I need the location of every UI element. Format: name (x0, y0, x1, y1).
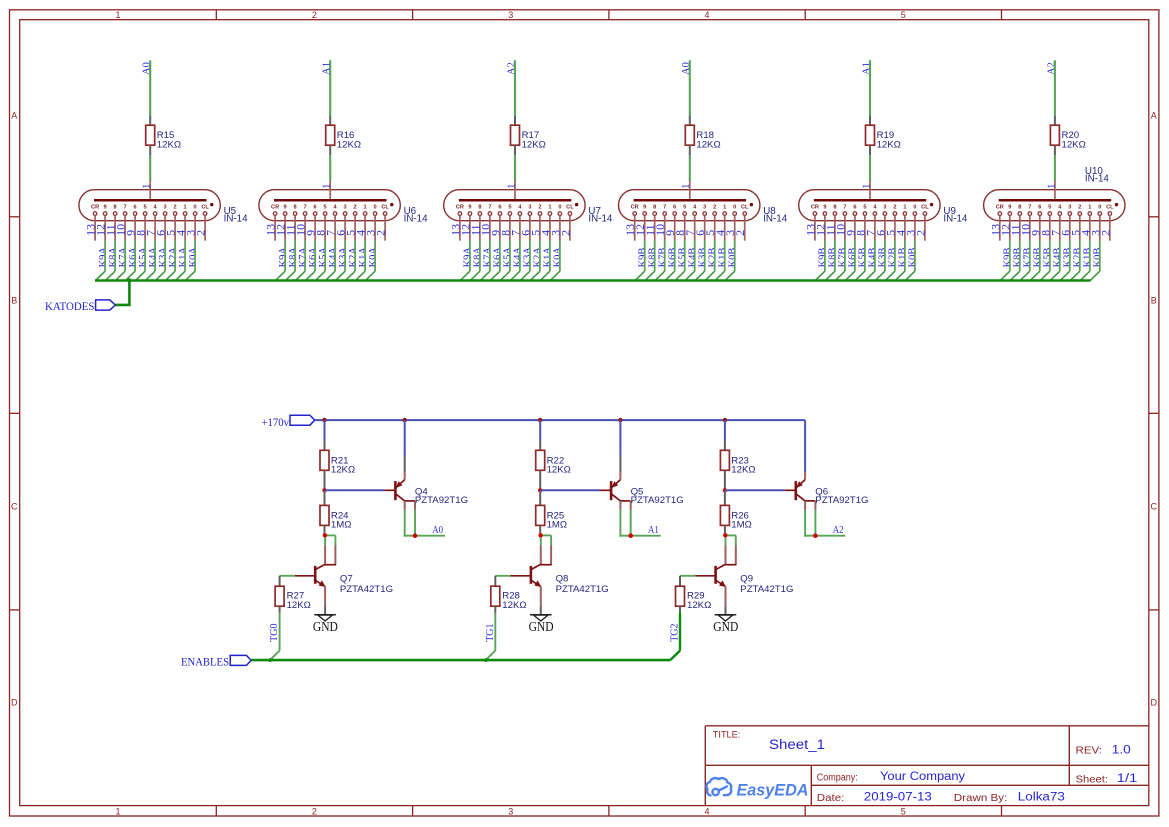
svg-text:CR: CR (631, 204, 639, 210)
svg-text:B: B (1151, 296, 1157, 306)
cathode net labels K9B..K0B of U9 (818, 248, 919, 268)
transistor Q9 PZTA42T1G (NPN) (695, 545, 793, 606)
svg-text:IN-14: IN-14 (943, 214, 968, 225)
svg-text:K0A: K0A (188, 247, 199, 268)
reference text U5 IN-14 (224, 206, 249, 225)
svg-text:1: 1 (861, 184, 872, 189)
svg-text:3: 3 (703, 204, 706, 210)
wire Q5 collector to A1 (619, 510, 660, 537)
title block text REV (1076, 744, 1131, 756)
svg-text:9: 9 (284, 204, 287, 210)
svg-text:IN-14: IN-14 (224, 214, 249, 225)
svg-text:IN-14: IN-14 (763, 214, 788, 225)
svg-text:1: 1 (322, 184, 333, 189)
svg-text:5: 5 (901, 806, 906, 816)
svg-text:K0B: K0B (908, 248, 919, 268)
pin number 1 (anode) of U9 (861, 184, 872, 189)
svg-text:C: C (11, 502, 18, 512)
wire enable bus (251, 659, 670, 662)
resistor R15 12KΩ (146, 125, 181, 150)
svg-text:7: 7 (663, 204, 666, 210)
svg-text:IN-14: IN-14 (404, 214, 429, 225)
resistor R29 12KΩ (676, 586, 712, 611)
svg-text:+170v: +170v (262, 415, 290, 429)
junction collector node Q9 (723, 533, 727, 537)
svg-text:6: 6 (134, 204, 137, 210)
svg-text:A2: A2 (833, 525, 844, 536)
wire A2 to R17 (514, 60, 516, 125)
svg-text:C: C (1151, 502, 1158, 512)
wire rail to R23 (724, 420, 726, 450)
svg-text:3: 3 (344, 204, 347, 210)
svg-text:2: 2 (374, 230, 388, 236)
wire R21 to base node (324, 471, 326, 491)
svg-text:D: D (11, 698, 18, 708)
svg-text:CL: CL (201, 204, 209, 210)
net label TG1 (485, 623, 496, 641)
svg-text:8: 8 (478, 204, 481, 210)
wire R18 to U8 pin 1 (689, 145, 691, 181)
svg-text:9: 9 (643, 204, 646, 210)
net label A0 (anode net, tube U8) (681, 62, 692, 75)
svg-text:0: 0 (733, 204, 736, 210)
net label A0 (432, 525, 443, 536)
svg-text:2: 2 (893, 204, 896, 210)
wire R16 to U6 pin 1 (329, 145, 331, 181)
svg-text:12KΩ: 12KΩ (522, 139, 546, 150)
title block text TITLE (713, 730, 825, 752)
svg-text:2: 2 (312, 10, 317, 20)
svg-text:Q7: Q7 (340, 573, 353, 584)
net label TG0 (269, 623, 280, 641)
junction on katode bus (127, 278, 131, 282)
svg-text:8: 8 (1018, 204, 1021, 210)
svg-text:0: 0 (913, 204, 916, 210)
svg-text:0: 0 (558, 204, 561, 210)
svg-text:12KΩ: 12KΩ (287, 600, 311, 611)
wire A1 to R16 (329, 60, 331, 125)
svg-text:1: 1 (142, 184, 153, 189)
title block text Drawn By (954, 792, 1065, 804)
resistor R18 12KΩ (685, 125, 720, 150)
svg-text:5: 5 (901, 10, 906, 20)
svg-text:1.0: 1.0 (1112, 744, 1131, 756)
junction collector node Q7 (323, 533, 327, 537)
svg-text:9: 9 (104, 204, 107, 210)
wire R29 to enable bus (TG2) (670, 606, 680, 660)
junction on rail at Q6 emitter (0, 0, 1, 1)
svg-text:PZTA42T1G: PZTA42T1G (740, 584, 793, 595)
svg-text:1: 1 (1088, 204, 1091, 210)
resistor R21 12KΩ (320, 450, 355, 475)
svg-text:7: 7 (304, 204, 307, 210)
svg-text:6: 6 (314, 204, 317, 210)
wire Q9 emitter to ground (725, 606, 727, 614)
pin number 1 (anode) of U7 (506, 184, 517, 189)
title block text Company (817, 771, 965, 783)
wires U6 cathode pins to katode bus (275, 241, 375, 281)
wire Q7 emitter to ground (324, 606, 326, 614)
svg-text:1: 1 (184, 204, 187, 210)
wire base wire Q9 (680, 576, 695, 586)
svg-text:K0A: K0A (553, 247, 564, 268)
wire +170v rail (315, 420, 805, 472)
svg-text:12KΩ: 12KΩ (1062, 139, 1086, 150)
svg-text:2: 2 (354, 204, 357, 210)
svg-text:CR: CR (456, 204, 464, 210)
svg-text:Lolka73: Lolka73 (1018, 792, 1065, 804)
svg-text:CR: CR (811, 204, 819, 210)
resistor R28 12KΩ (491, 586, 527, 611)
svg-text:1/1: 1/1 (1117, 773, 1138, 785)
svg-text:PZTA42T1G: PZTA42T1G (556, 584, 609, 595)
resistor R19 12KΩ (866, 125, 901, 150)
EasyEDA logo (706, 778, 808, 799)
svg-text:6: 6 (498, 204, 501, 210)
svg-text:12KΩ: 12KΩ (687, 600, 711, 611)
reference text U9 IN-14 (943, 206, 968, 225)
net label A1 (anode net, tube U6) (322, 62, 333, 75)
svg-text:REV:: REV: (1076, 746, 1103, 757)
reference text U6 IN-14 (404, 206, 429, 225)
svg-text:3: 3 (508, 10, 513, 20)
junction on rail at Q5 emitter (618, 418, 622, 422)
wire base node to R26 (724, 490, 726, 505)
resistor R27 12KΩ (275, 586, 311, 611)
wires U5 cathode pins to katode bus (95, 241, 195, 281)
svg-text:1: 1 (723, 204, 726, 210)
net port +170v (262, 415, 315, 429)
reference text U7 IN-14 (588, 206, 613, 225)
wire R26 to collector node (724, 526, 726, 536)
svg-text:3: 3 (528, 204, 531, 210)
svg-text:TITLE:: TITLE: (713, 730, 741, 740)
svg-text:3: 3 (508, 806, 513, 816)
svg-text:7: 7 (843, 204, 846, 210)
transistor Q8 PZTA42T1G (NPN) (511, 545, 609, 606)
tube socket U7 IN-14 (444, 181, 585, 241)
svg-text:8: 8 (114, 204, 117, 210)
svg-text:Sheet_1: Sheet_1 (769, 737, 825, 752)
svg-text:2: 2 (913, 230, 927, 236)
svg-text:GND: GND (529, 619, 554, 634)
net label A2 (833, 525, 844, 536)
wire collector node to Q8 collector pins (540, 535, 551, 545)
svg-text:12KΩ: 12KΩ (696, 139, 720, 150)
junction base node Q5 (538, 488, 542, 492)
wire R25 to collector node (539, 526, 541, 536)
wire base node to Q4 base (325, 489, 385, 491)
wires U9 cathode pins to katode bus (815, 241, 915, 281)
svg-text:6: 6 (1038, 204, 1041, 210)
wires U10 cathode pins to katode bus (1000, 241, 1100, 281)
wire collector node to Q7 collector pins (324, 535, 335, 545)
svg-text:PZTA92T1G: PZTA92T1G (415, 495, 468, 506)
title block text Date (817, 792, 932, 804)
wire A1 to R19 (869, 60, 871, 125)
svg-text:12KΩ: 12KΩ (157, 139, 181, 150)
svg-text:6: 6 (673, 204, 676, 210)
svg-text:8: 8 (653, 204, 656, 210)
svg-text:5: 5 (683, 204, 686, 210)
junction at A1 node (628, 533, 633, 538)
svg-text:CL: CL (741, 204, 749, 210)
wire R22 to base node (539, 471, 541, 491)
pin number 1 (anode) of U5 (142, 184, 153, 189)
svg-text:K0B: K0B (1093, 248, 1104, 268)
svg-text:12KΩ: 12KΩ (877, 139, 901, 150)
wire base node to Q6 base (725, 489, 785, 491)
svg-text:1: 1 (364, 204, 367, 210)
junction on rail at R22 (538, 418, 542, 422)
resistor R23 12KΩ (720, 450, 755, 475)
cathode net labels K9B..K0B of U8 (637, 248, 738, 268)
tube socket U8 IN-14 (619, 181, 760, 241)
svg-text:1MΩ: 1MΩ (331, 520, 352, 531)
net label A2 (anode net, tube U10) (1046, 62, 1057, 75)
svg-text:2: 2 (312, 806, 317, 816)
svg-text:3: 3 (164, 204, 167, 210)
svg-text:GND: GND (713, 619, 738, 634)
wire A2 to R20 (1054, 60, 1056, 125)
svg-text:TG1: TG1 (485, 623, 496, 641)
svg-text:6: 6 (853, 204, 856, 210)
svg-text:A: A (1151, 111, 1157, 121)
svg-text:1: 1 (115, 10, 120, 20)
wire KATODES port to bus (115, 281, 131, 305)
transistor Q6 PZTA92T1G (PNP) (785, 472, 869, 510)
svg-text:CL: CL (381, 204, 389, 210)
svg-text:2: 2 (538, 204, 541, 210)
net label A0 (anode net, tube U5) (142, 62, 153, 75)
cathode net labels K9B..K0B of U10 (1003, 248, 1104, 268)
svg-text:TG0: TG0 (269, 623, 280, 641)
svg-text:4: 4 (704, 10, 709, 20)
wire R24 to collector node (324, 526, 326, 536)
wire A0 to R18 (689, 60, 691, 125)
junction base node Q6 (723, 488, 727, 492)
svg-text:4: 4 (704, 806, 709, 816)
svg-text:7: 7 (1028, 204, 1031, 210)
svg-text:7: 7 (124, 204, 127, 210)
junction at A2 node (813, 533, 818, 538)
net label A1 (648, 525, 659, 536)
svg-text:ENABLES: ENABLES (181, 654, 229, 668)
wire Q8 emitter to ground (540, 606, 542, 614)
svg-text:CR: CR (91, 204, 99, 210)
svg-text:2: 2 (1078, 204, 1081, 210)
title block (705, 726, 1149, 806)
cathode net labels K9A..K0A of U6 (278, 247, 379, 268)
pin number 1 (anode) of U8 (681, 184, 692, 189)
wire A0 to R15 (149, 60, 151, 125)
svg-text:D: D (1151, 698, 1158, 708)
svg-text:A0: A0 (432, 525, 443, 536)
svg-text:Drawn By:: Drawn By: (954, 793, 1008, 804)
transistor Q4 PZTA92T1G (PNP) (384, 420, 468, 510)
tube socket U6 IN-14 (259, 181, 400, 241)
svg-text:1: 1 (681, 184, 692, 189)
svg-text:B: B (11, 296, 17, 306)
junction at A0 node (413, 533, 418, 538)
svg-text:5: 5 (863, 204, 866, 210)
wire R19 to U9 pin 1 (869, 145, 871, 181)
pin numbers 13..2 of U10 (988, 224, 1112, 236)
wire base node to R24 (324, 490, 326, 505)
svg-text:2: 2 (558, 230, 572, 236)
junction base node Q4 (322, 488, 326, 492)
ground GND at Q9 (713, 615, 738, 634)
tube socket U10 IN-14 (984, 181, 1125, 241)
svg-text:K0B: K0B (727, 248, 738, 268)
resistor R20 12KΩ (1050, 125, 1085, 150)
pin number 1 (anode) of U6 (322, 184, 333, 189)
svg-text:5: 5 (144, 204, 147, 210)
wires U7 cathode pins to katode bus (460, 241, 560, 281)
svg-text:5: 5 (508, 204, 511, 210)
pin numbers 13..2 of U8 (623, 224, 747, 236)
wire rail to R21 (324, 420, 326, 450)
resistor R16 12KΩ (326, 125, 361, 150)
resistor R24 1MΩ (320, 505, 351, 530)
pin number 1 (anode) of U10 (1046, 184, 1057, 189)
svg-text:7: 7 (488, 204, 491, 210)
svg-text:12KΩ: 12KΩ (337, 139, 361, 150)
svg-text:A: A (11, 111, 17, 121)
svg-text:A1: A1 (648, 525, 659, 536)
svg-text:9: 9 (1008, 204, 1011, 210)
junction collector node Q8 (538, 533, 542, 537)
svg-text:PZTA92T1G: PZTA92T1G (815, 495, 868, 506)
svg-text:2: 2 (194, 230, 208, 236)
svg-text:CR: CR (271, 204, 279, 210)
svg-text:IN-14: IN-14 (588, 214, 613, 225)
svg-text:2: 2 (174, 204, 177, 210)
pin numbers 13..2 of U5 (84, 224, 208, 236)
title block text Sheet (1076, 773, 1138, 785)
wire base wire Q8 (495, 576, 510, 586)
svg-text:PZTA42T1G: PZTA42T1G (340, 584, 393, 595)
pin numbers 13..2 of U7 (448, 224, 572, 236)
svg-text:3: 3 (1068, 204, 1071, 210)
cathode net labels K9A..K0A of U7 (463, 247, 564, 268)
wire R28 to enable bus (TG1) (486, 606, 496, 660)
tube socket U5 IN-14 (79, 181, 220, 241)
wire base node to R25 (539, 490, 541, 505)
svg-text:1: 1 (506, 184, 517, 189)
junction TG0 on enable bus (268, 658, 272, 662)
svg-text:Q9: Q9 (740, 573, 753, 584)
svg-text:0: 0 (194, 204, 197, 210)
ground GND at Q8 (529, 615, 554, 634)
wire base wire Q7 (280, 576, 295, 586)
svg-text:CL: CL (921, 204, 929, 210)
wire Q6 collector to A2 (804, 510, 845, 537)
svg-text:9: 9 (468, 204, 471, 210)
svg-text:CL: CL (1106, 204, 1114, 210)
svg-text:CR: CR (996, 204, 1004, 210)
wire Q4 collector to A0 (404, 510, 445, 537)
svg-text:IN-14: IN-14 (1085, 174, 1110, 185)
reference text U10 IN-14 (1085, 166, 1110, 185)
net port ENABLES (181, 654, 251, 668)
svg-text:8: 8 (833, 204, 836, 210)
wire R27 to enable bus (TG0) (270, 606, 280, 660)
wire katode bus (95, 279, 1090, 282)
svg-text:EasyEDA: EasyEDA (737, 782, 809, 800)
svg-text:2: 2 (713, 204, 716, 210)
svg-text:Your Company: Your Company (880, 771, 965, 783)
junction TG1 on enable bus (484, 658, 488, 662)
wire R23 to base node (724, 471, 726, 491)
svg-text:Company:: Company: (817, 772, 858, 783)
svg-text:KATODES: KATODES (45, 299, 95, 313)
wire R15 to U5 pin 1 (149, 145, 151, 181)
net label TG2 (670, 623, 681, 641)
wire R17 to U7 pin 1 (514, 145, 516, 181)
ground GND at Q7 (313, 615, 338, 634)
svg-text:PZTA92T1G: PZTA92T1G (631, 495, 684, 506)
transistor Q5 PZTA92T1G (PNP) (600, 420, 684, 510)
reference text U8 IN-14 (763, 206, 788, 225)
net port KATODES (45, 299, 115, 313)
svg-text:Sheet:: Sheet: (1076, 774, 1109, 785)
svg-text:2019-07-13: 2019-07-13 (864, 792, 932, 804)
svg-text:0: 0 (1098, 204, 1101, 210)
pin numbers 13..2 of U6 (264, 224, 388, 236)
svg-text:K0A: K0A (368, 247, 379, 268)
wire base node to Q5 base (540, 489, 600, 491)
resistor R26 1MΩ (720, 505, 751, 530)
resistor R22 12KΩ (536, 450, 571, 475)
pin numbers 13..2 of U9 (803, 224, 927, 236)
svg-text:1: 1 (1046, 184, 1057, 189)
transistor Q7 PZTA42T1G (NPN) (295, 545, 393, 606)
svg-text:TG2: TG2 (670, 623, 681, 641)
svg-text:0: 0 (374, 204, 377, 210)
resistor R25 1MΩ (536, 505, 567, 530)
svg-text:GND: GND (313, 619, 338, 634)
cathode net labels K9A..K0A of U5 (98, 247, 199, 268)
junction on rail at Q4 emitter (403, 418, 407, 422)
wires U8 cathode pins to katode bus (635, 241, 735, 281)
svg-text:2: 2 (733, 230, 747, 236)
svg-text:1: 1 (903, 204, 906, 210)
svg-text:12KΩ: 12KΩ (331, 465, 355, 476)
svg-text:CL: CL (566, 204, 574, 210)
svg-text:Date:: Date: (817, 793, 845, 804)
svg-text:1: 1 (115, 806, 120, 816)
svg-text:12KΩ: 12KΩ (547, 465, 571, 476)
wire rail to R22 (539, 420, 541, 450)
svg-text:12KΩ: 12KΩ (731, 465, 755, 476)
resistor R17 12KΩ (511, 125, 546, 150)
svg-text:2: 2 (1098, 230, 1112, 236)
junction on rail at R21 (322, 418, 326, 422)
wire collector node to Q9 collector pins (725, 535, 736, 545)
svg-text:12KΩ: 12KΩ (502, 600, 526, 611)
svg-text:5: 5 (324, 204, 327, 210)
svg-text:9: 9 (823, 204, 826, 210)
tube socket U9 IN-14 (799, 181, 940, 241)
svg-text:1MΩ: 1MΩ (547, 520, 568, 531)
svg-text:1: 1 (548, 204, 551, 210)
junction on rail at R23 (723, 418, 727, 422)
svg-text:1MΩ: 1MΩ (731, 520, 752, 531)
svg-text:Q8: Q8 (556, 573, 569, 584)
wire R20 to U10 pin 1 (1054, 145, 1056, 181)
svg-text:8: 8 (294, 204, 297, 210)
